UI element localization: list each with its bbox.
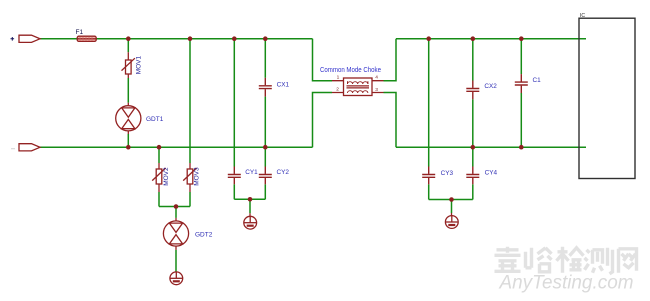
svg-text:1: 1 bbox=[337, 74, 340, 80]
pin numbers bbox=[336, 74, 378, 93]
earth ground 3 (GDT2) bbox=[170, 272, 183, 285]
svg-text:MOV1: MOV1 bbox=[136, 55, 143, 74]
wire bottom rail left bbox=[40, 146, 313, 148]
wire MOV3 from top rail bbox=[189, 39, 191, 163]
node bottom GDT1 bbox=[126, 145, 131, 150]
varistor MOV2 bbox=[152, 163, 165, 192]
wire GDT2 to earth bbox=[175, 250, 177, 272]
node bottom MOV2 bbox=[157, 145, 162, 150]
node top MOV1 bbox=[126, 36, 131, 41]
node bottom CX1 bbox=[263, 145, 268, 150]
svg-text:CY2: CY2 bbox=[277, 169, 290, 176]
fuse F1 bbox=[77, 36, 96, 41]
svg-text:CY1: CY1 bbox=[245, 169, 258, 176]
wire CY3-CY4 connector bbox=[429, 199, 473, 201]
node top CX2 bbox=[471, 36, 476, 41]
IC U1 block bbox=[579, 13, 635, 179]
wire GDT2 top stem bbox=[175, 207, 177, 218]
wire C1 bottom bbox=[520, 93, 522, 147]
wire top rail left to choke pin1 bbox=[313, 39, 333, 81]
watermark hanzi 测 bbox=[585, 248, 613, 274]
svg-text:4: 4 bbox=[375, 74, 378, 80]
svg-text:AnyTesting.com: AnyTesting.com bbox=[499, 273, 634, 294]
svg-text:GDT2: GDT2 bbox=[195, 232, 213, 239]
svg-text:Common Mode Choke: Common Mode Choke bbox=[320, 67, 381, 74]
wire CY1-CY2 connector bbox=[234, 198, 265, 200]
node bottom CX2 bbox=[471, 145, 476, 150]
wire choke pin4 to top rail right bbox=[384, 39, 397, 81]
capacitor CY1 bbox=[228, 167, 241, 185]
svg-text:IC: IC bbox=[580, 13, 585, 19]
svg-text:CX1: CX1 bbox=[277, 82, 290, 89]
capacitor C1 bbox=[515, 74, 528, 93]
wire earth2 stem bbox=[451, 200, 453, 214]
wire CX2 top bbox=[472, 39, 474, 81]
terminal input + bbox=[19, 35, 40, 42]
node earth2 junction bbox=[449, 197, 454, 202]
capacitor CY2 bbox=[259, 167, 272, 185]
wire CX2 bottom to rail bbox=[472, 99, 474, 147]
svg-text:3: 3 bbox=[375, 87, 378, 93]
watermark hanzi 峪 bbox=[526, 248, 552, 272]
svg-text:GDT1: GDT1 bbox=[146, 116, 164, 123]
wire CY2 top bbox=[264, 147, 266, 166]
node top CX1 bbox=[263, 36, 268, 41]
wire MOV3 bottom bbox=[189, 192, 191, 207]
varistor MOV1 bbox=[122, 52, 135, 78]
svg-text:2: 2 bbox=[336, 87, 339, 93]
wire MOV2-MOV3 connector bbox=[159, 206, 190, 208]
common mode choke body bbox=[332, 78, 384, 96]
svg-text:CY4: CY4 bbox=[485, 170, 498, 177]
wire earth1 stem bbox=[249, 199, 251, 213]
wire bottom rail right bbox=[396, 146, 586, 148]
wire CY3 from top rail bbox=[428, 39, 430, 167]
capacitor CX1 bbox=[259, 78, 272, 97]
node GDT2 junction bbox=[174, 204, 179, 209]
svg-text:F1: F1 bbox=[76, 29, 84, 36]
svg-text:MOV3: MOV3 bbox=[194, 167, 201, 186]
varistor MOV3 bbox=[183, 163, 196, 192]
earth ground 1 bbox=[244, 213, 257, 229]
capacitor CY4 bbox=[466, 167, 479, 185]
capacitor CY3 bbox=[422, 167, 435, 185]
wire CX1 bottom to rail bbox=[264, 97, 266, 148]
wire CX1 top bbox=[264, 39, 266, 78]
svg-text:CX2: CX2 bbox=[484, 83, 497, 90]
wire CY4 top bbox=[472, 147, 474, 166]
wire choke pin3 to bottom rail right bbox=[384, 93, 397, 148]
node top C1 bbox=[519, 36, 524, 41]
wire MOV1 to GDT1 bbox=[127, 78, 129, 103]
node top CY1 bbox=[232, 36, 237, 41]
wire CY4 bottom bbox=[472, 184, 474, 199]
GDT2 gas discharge tube bbox=[163, 218, 188, 250]
wire CY3 bottom bbox=[428, 184, 430, 199]
svg-text:MOV2: MOV2 bbox=[163, 167, 170, 186]
node top MOV3 bbox=[188, 36, 193, 41]
wire top rail left bbox=[40, 38, 313, 40]
watermark hanzi 网 bbox=[619, 249, 637, 273]
wire C1 top bbox=[520, 39, 522, 74]
node top CY3 bbox=[426, 36, 431, 41]
wire MOV1 top bbox=[127, 39, 129, 53]
svg-text:CY3: CY3 bbox=[441, 170, 454, 177]
GDT1 gas discharge tube bbox=[116, 103, 141, 134]
wire CY1 bottom bbox=[233, 184, 235, 199]
node earth1 junction bbox=[248, 197, 253, 202]
wire CY2 bottom bbox=[264, 184, 266, 199]
wire MOV2 top bbox=[158, 147, 160, 163]
wire bottom rail left to choke pin2 bbox=[313, 93, 333, 148]
watermark hanzi 嘉 bbox=[495, 247, 521, 271]
svg-text:C1: C1 bbox=[533, 77, 542, 84]
earth ground 2 bbox=[445, 213, 458, 228]
wire CY1 from top rail bbox=[233, 39, 235, 167]
wire MOV2 bottom bbox=[158, 192, 160, 207]
wire top rail right bbox=[396, 38, 586, 40]
watermark hanzi 检 bbox=[557, 247, 584, 273]
wire GDT1 to bottom rail bbox=[127, 134, 129, 147]
label minus bbox=[11, 148, 15, 150]
label plus bbox=[11, 37, 15, 41]
terminal input - bbox=[19, 144, 40, 151]
node bottom C1 bbox=[519, 145, 524, 150]
capacitor CX2 bbox=[466, 81, 479, 100]
